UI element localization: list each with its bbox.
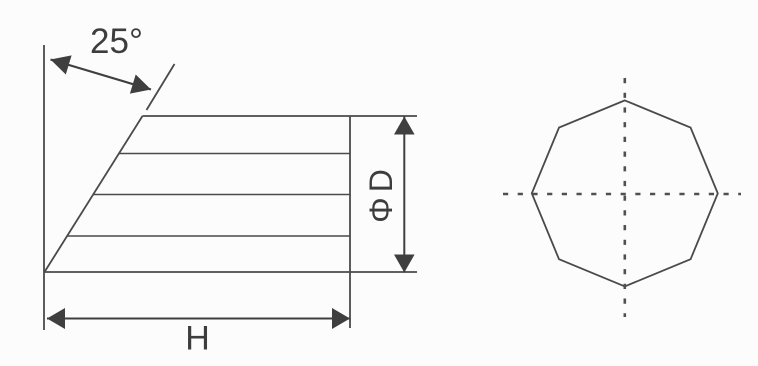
wire: slanted extension line above trapezoid (147, 64, 175, 110)
node: right edge of trapezoid with extension down (349, 116, 351, 328)
svg-text:25°: 25° (90, 22, 143, 61)
node: vertical reference line (left datum) (43, 45, 45, 330)
wire: interior line 3 (67, 235, 350, 237)
node: phi-D arrowhead top (394, 117, 415, 135)
wire: interior line 2 (93, 194, 350, 196)
wire: bottom edge with extension to dimension line (45, 271, 418, 273)
wire: top edge with extension to dimension line (143, 115, 418, 117)
wire: vertical dashed centerline (623, 78, 626, 317)
node: phi-D arrowhead bottom (394, 255, 415, 273)
wire: H dimension shaft (47, 318, 350, 320)
node: angle arrowhead left (51, 55, 72, 74)
node: trapezoid slanted left edge (45, 116, 143, 272)
svg-text:H: H (185, 320, 210, 358)
wire: horizontal dashed centerline (503, 193, 741, 196)
svg-text:ΦD: ΦD (363, 164, 399, 223)
node: H arrowhead left (47, 308, 65, 329)
node: angle arrowhead right (130, 75, 151, 94)
wire: phi-D dimension shaft (403, 117, 405, 273)
node: octagon outline (532, 100, 718, 286)
wire: interior line 1 (119, 153, 350, 155)
node: H arrowhead right (332, 308, 350, 329)
wire: angle dimension shaft (51, 60, 152, 90)
